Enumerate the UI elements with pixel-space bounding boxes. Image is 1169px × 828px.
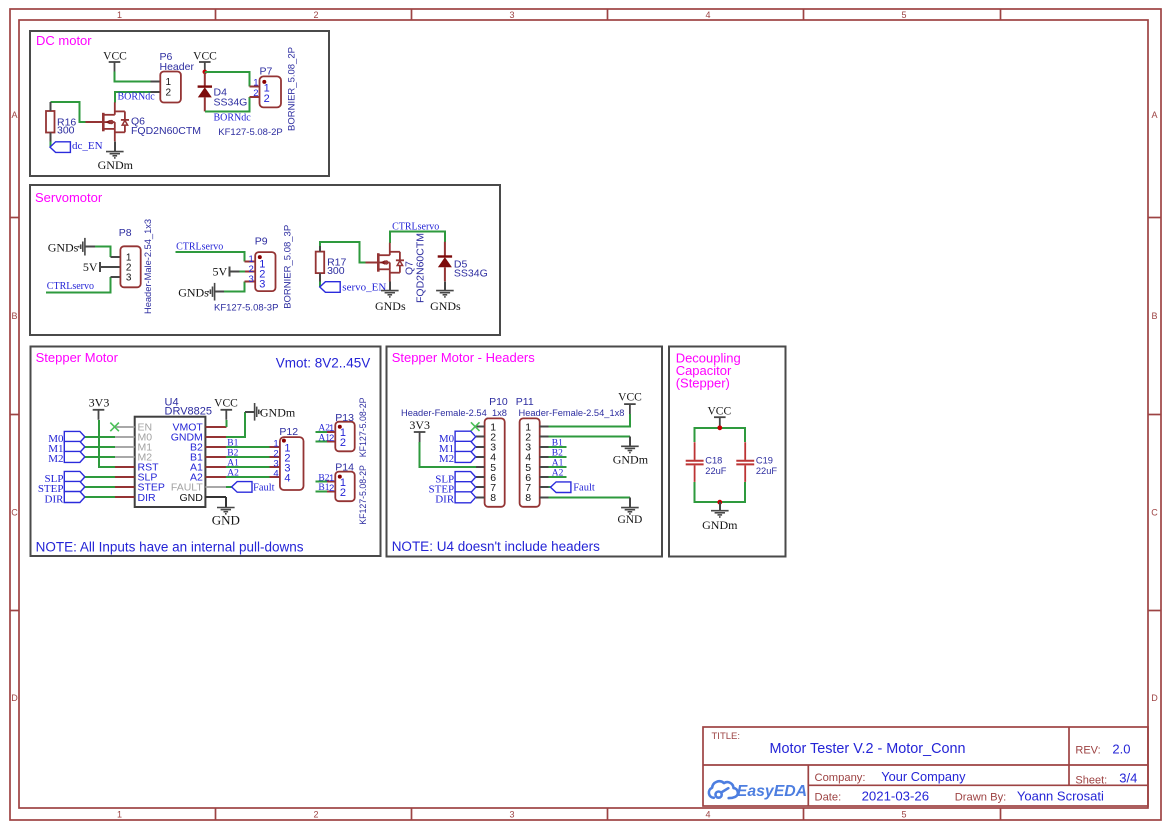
power 3V3 (headers) bbox=[409, 418, 430, 442]
svg-text:(Stepper): (Stepper) bbox=[676, 376, 730, 391]
svg-text:P8: P8 bbox=[119, 227, 132, 239]
power VCC (decoupling) bbox=[707, 406, 731, 428]
wire FAULT to Fault flag bbox=[226, 486, 232, 488]
U4 pin stub EN bbox=[115, 426, 135, 428]
svg-text:2: 2 bbox=[313, 810, 318, 820]
wire net A1 (P11 pin 5) bbox=[549, 466, 567, 468]
svg-text:SS34G: SS34G bbox=[454, 267, 488, 279]
transistor Q7 bbox=[378, 243, 404, 282]
pin 2 stub of P6 bbox=[150, 91, 160, 93]
P7 outside pin numbers bbox=[253, 78, 258, 100]
connector P10 body bbox=[485, 418, 505, 506]
D5 cathode lead to ground bbox=[444, 281, 446, 290]
wire VCC to P11 pin 1 bbox=[549, 414, 630, 427]
U4 pin stub FAULT bbox=[205, 486, 225, 488]
svg-text:A1: A1 bbox=[227, 458, 239, 468]
power 5V (P8 pin2) bbox=[83, 260, 100, 274]
svg-text:servo_EN: servo_EN bbox=[342, 282, 386, 294]
svg-text:3: 3 bbox=[509, 10, 514, 20]
svg-text:P7: P7 bbox=[260, 66, 273, 78]
wire M0 flag to U4 bbox=[85, 436, 115, 438]
svg-text:DIR: DIR bbox=[435, 494, 455, 506]
svg-text:1: 1 bbox=[117, 10, 122, 20]
title block dividers bbox=[703, 727, 1148, 806]
gate lead of Q6 bbox=[85, 121, 103, 123]
wire R17 bottom to servo_EN flag bbox=[319, 282, 321, 287]
svg-text:5V: 5V bbox=[213, 265, 228, 279]
net flag Fault (headers) bbox=[551, 482, 571, 493]
wire 5V to P9 pin 2 bbox=[230, 271, 240, 273]
net flag SLP bbox=[64, 471, 85, 482]
svg-text:GNDs: GNDs bbox=[48, 240, 79, 254]
svg-text:A1: A1 bbox=[552, 459, 564, 469]
ground GNDs (D5) bbox=[436, 291, 454, 297]
U4 right pin names bbox=[171, 422, 204, 504]
wire R16 top to Q6 gate bbox=[50, 102, 85, 122]
wire net BORNdc to P6 pin 2 bbox=[115, 92, 151, 103]
svg-text:Yoann Scrosati: Yoann Scrosati bbox=[1017, 789, 1104, 804]
Stepper Motor section box bbox=[31, 347, 381, 557]
svg-text:VCC: VCC bbox=[103, 50, 127, 62]
svg-text:2: 2 bbox=[264, 93, 270, 105]
svg-text:VCC: VCC bbox=[707, 406, 731, 418]
net flag SLP (headers) bbox=[455, 472, 476, 483]
svg-text:M2: M2 bbox=[48, 453, 63, 465]
wire B2 to P12 pin 1 bbox=[226, 446, 270, 448]
svg-text:22uF: 22uF bbox=[705, 466, 727, 476]
P9 pin 1 marker dot bbox=[258, 255, 262, 259]
svg-text:P11: P11 bbox=[516, 396, 534, 408]
wire VCC junction to P7 pin 1 bbox=[205, 72, 250, 87]
P14 outside pin numbers bbox=[329, 473, 334, 494]
connector P13 body bbox=[335, 422, 354, 452]
P6 pin numbers bbox=[166, 77, 172, 98]
svg-text:P12: P12 bbox=[279, 426, 298, 438]
net flag DIR (headers) bbox=[455, 492, 476, 503]
ground GNDs (P8 pin1) bbox=[79, 238, 85, 256]
svg-text:P14: P14 bbox=[335, 462, 354, 474]
svg-text:Stepper Motor - Headers: Stepper Motor - Headers bbox=[392, 350, 536, 365]
U4 pin stub GND bbox=[205, 496, 225, 498]
wire CTRLservo Q7 drain to D5 bbox=[390, 231, 445, 243]
power VCC (DC motor) bbox=[103, 50, 127, 72]
wire GNDs stem (P9) bbox=[215, 291, 224, 293]
wire R17 top to Q7 gate bbox=[320, 242, 366, 262]
svg-text:GNDm: GNDm bbox=[260, 406, 296, 420]
Servomotor section box bbox=[30, 185, 500, 335]
svg-text:Fault: Fault bbox=[573, 483, 595, 494]
svg-text:D: D bbox=[11, 693, 18, 703]
wire CTRLservo to P9 pin 1 bbox=[176, 252, 245, 262]
svg-text:BORNIER_5.08_3P: BORNIER_5.08_3P bbox=[283, 225, 294, 309]
svg-text:3: 3 bbox=[249, 274, 254, 285]
P12 outside pin numbers bbox=[273, 438, 278, 479]
svg-text:Header: Header bbox=[160, 61, 195, 73]
svg-text:5: 5 bbox=[901, 810, 906, 820]
svg-text:1: 1 bbox=[253, 78, 258, 89]
wire P11 pin 7 to Fault flag bbox=[549, 486, 551, 488]
connector P11 body bbox=[520, 418, 540, 506]
U4 pin stub SLP bbox=[115, 476, 135, 478]
svg-text:TITLE:: TITLE: bbox=[712, 731, 741, 742]
svg-text:BORNdc: BORNdc bbox=[214, 113, 252, 124]
svg-text:EasyEDA: EasyEDA bbox=[737, 783, 807, 800]
svg-text:8: 8 bbox=[490, 492, 496, 504]
pin stub R16 bottom bbox=[49, 133, 51, 142]
P13 inside pin numbers bbox=[340, 427, 346, 449]
connector P9 body bbox=[255, 252, 275, 291]
svg-text:DRV8825: DRV8825 bbox=[165, 406, 213, 418]
svg-text:FQD2N60CTM: FQD2N60CTM bbox=[415, 233, 427, 303]
Stepper Motor - Headers section box bbox=[387, 347, 663, 557]
svg-text:GNDs: GNDs bbox=[375, 299, 406, 313]
ground GNDm stem (headers) bbox=[629, 437, 631, 447]
power VCC (near D4) bbox=[193, 50, 217, 72]
svg-text:dc_EN: dc_EN bbox=[72, 140, 103, 152]
svg-text:2: 2 bbox=[329, 433, 334, 444]
svg-text:C: C bbox=[11, 508, 18, 518]
wire STEP flag to U4 bbox=[85, 486, 115, 488]
junction node bottom GNDm bbox=[717, 500, 722, 505]
net flag M1 bbox=[64, 441, 85, 452]
U4 pin stub A1 bbox=[205, 466, 225, 468]
wire DIR flag to U4 bbox=[85, 496, 115, 498]
junction node VCC/D4 bbox=[203, 70, 208, 75]
DC motor section box bbox=[30, 31, 329, 176]
connector P14 body bbox=[335, 472, 354, 502]
svg-text:GND: GND bbox=[179, 492, 203, 504]
svg-text:Date:: Date: bbox=[815, 792, 842, 804]
power VCC (stepper) bbox=[214, 397, 238, 420]
P11 pin stubs bbox=[540, 427, 549, 498]
svg-text:Sheet:: Sheet: bbox=[1075, 775, 1107, 787]
net flag STEP bbox=[64, 481, 85, 492]
svg-text:2: 2 bbox=[313, 10, 318, 20]
ground GNDm stem (stepper) bbox=[245, 411, 254, 413]
U4 pin stub B2 bbox=[205, 446, 225, 448]
svg-text:M2: M2 bbox=[439, 453, 454, 465]
P14 pin 2 stub bbox=[327, 490, 335, 492]
svg-text:KF127-5.08-2P: KF127-5.08-2P bbox=[218, 127, 282, 138]
svg-text:B2: B2 bbox=[552, 448, 563, 458]
svg-text:GND: GND bbox=[212, 513, 240, 528]
svg-text:300: 300 bbox=[327, 265, 345, 277]
svg-text:3: 3 bbox=[126, 273, 132, 284]
svg-text:KF127-5.08-2P: KF127-5.08-2P bbox=[358, 465, 368, 525]
svg-text:GNDm: GNDm bbox=[613, 453, 649, 467]
wire net B2 (P11 pin 4) bbox=[549, 456, 567, 458]
svg-text:P13: P13 bbox=[335, 412, 354, 424]
P9 pin 3 stub bbox=[245, 281, 256, 283]
P7 pin 1 marker dot bbox=[262, 80, 266, 84]
wire bottom rail C18-C19 bbox=[695, 482, 746, 502]
svg-text:GNDs: GNDs bbox=[430, 299, 461, 313]
transistor Q6 bbox=[103, 102, 129, 141]
svg-text:B1: B1 bbox=[227, 438, 238, 448]
wire net BORNdc to P7 pin 2 bbox=[205, 97, 250, 111]
pin stub R17 top bbox=[319, 246, 321, 252]
net flag M2 bbox=[64, 451, 85, 462]
svg-text:BORNIER_5.08_2P: BORNIER_5.08_2P bbox=[287, 47, 298, 131]
P7 pin 1 stub bbox=[250, 86, 260, 88]
P13 pin 1 stub bbox=[327, 431, 335, 433]
no-connect X on EN bbox=[110, 423, 119, 432]
svg-text:VCC: VCC bbox=[193, 50, 217, 62]
P9 pin 2 stub bbox=[245, 271, 255, 273]
net flag M2 (headers) bbox=[455, 451, 476, 462]
Q7 source lead to ground bbox=[389, 282, 391, 291]
P12 pin 1 stub bbox=[270, 446, 280, 448]
U4 pin stub RST bbox=[115, 466, 135, 468]
wire GNDs to P9 pin 3 bbox=[224, 282, 245, 292]
wire R16 bottom to dc_EN flag bbox=[49, 142, 51, 148]
net flag M1 (headers) bbox=[455, 441, 476, 452]
power 5V (P9 pin2) bbox=[213, 265, 230, 279]
wire M1 flag to U4 bbox=[85, 446, 115, 448]
svg-text:300: 300 bbox=[57, 125, 75, 137]
svg-text:VCC: VCC bbox=[618, 391, 642, 403]
ground GNDs (P9 pin3) bbox=[208, 283, 214, 301]
net flag M0 (headers) bbox=[455, 431, 476, 442]
net flag dc_EN bbox=[50, 142, 70, 153]
svg-text:Company:: Company: bbox=[815, 772, 866, 784]
svg-text:Your Company: Your Company bbox=[881, 769, 966, 784]
connector P7 body bbox=[260, 76, 282, 107]
U4 pin stub M1 bbox=[115, 446, 135, 448]
ground GND (stepper) bbox=[217, 508, 235, 514]
capacitor C19 bbox=[736, 442, 754, 482]
svg-text:Vmot: 8V2..45V: Vmot: 8V2..45V bbox=[276, 355, 371, 370]
svg-text:3: 3 bbox=[509, 810, 514, 820]
svg-text:VCC: VCC bbox=[214, 397, 238, 409]
capacitor C18 bbox=[686, 442, 704, 482]
svg-text:C: C bbox=[1151, 508, 1158, 518]
P7 pin 2 stub bbox=[250, 96, 260, 98]
junction node VCC/C18/C19 bbox=[717, 425, 722, 430]
net flag DIR bbox=[64, 492, 85, 503]
P9 inside pin numbers bbox=[259, 259, 265, 291]
power VCC (headers) bbox=[618, 391, 642, 414]
ground GND (headers) bbox=[621, 508, 639, 514]
svg-text:NOTE: All Inputs have an inter: NOTE: All Inputs have an internal pull-d… bbox=[36, 540, 304, 555]
EasyEDA logo bbox=[709, 781, 738, 798]
wire net A2 (P11 pin 6) bbox=[549, 476, 567, 478]
connector P12 body bbox=[280, 437, 304, 490]
svg-text:Header-Female-2.54_1x8: Header-Female-2.54_1x8 bbox=[401, 408, 507, 418]
wire 3V3 to P10 pin 5 bbox=[420, 442, 476, 467]
P8 pin 3 stub bbox=[110, 276, 120, 278]
svg-text:A: A bbox=[1151, 110, 1157, 120]
wire bottom junction to ground bbox=[719, 502, 721, 511]
svg-text:3V3: 3V3 bbox=[409, 418, 430, 432]
pin stub R16 top bbox=[49, 102, 51, 111]
svg-text:Drawn By:: Drawn By: bbox=[955, 792, 1007, 804]
ground GNDm (decoupling) bbox=[711, 511, 729, 517]
net flag Fault (stepper) bbox=[232, 482, 252, 493]
resistor R17 bbox=[316, 252, 325, 274]
wire SLP flag to U4 bbox=[85, 476, 115, 478]
svg-text:Header-Male-2.54_1x3: Header-Male-2.54_1x3 bbox=[143, 219, 153, 314]
svg-text:Header-Female-2.54_1x8: Header-Female-2.54_1x8 bbox=[519, 408, 625, 418]
no-connect X on P10 pin 1 bbox=[471, 422, 480, 431]
P13 outside pin numbers bbox=[329, 423, 334, 444]
wire VCC to VMOT bbox=[225, 420, 227, 427]
svg-text:2: 2 bbox=[340, 437, 346, 449]
P12 pin 3 stub bbox=[270, 466, 280, 468]
U4 pin stub GNDM bbox=[205, 436, 225, 438]
diode D4 bbox=[198, 72, 212, 112]
wire A2 to P12 pin 4 bbox=[226, 476, 270, 478]
wire 5V to P8 pin 2 bbox=[100, 266, 121, 268]
svg-text:KF127-5.08-2P: KF127-5.08-2P bbox=[358, 397, 368, 457]
pin stub R17 bottom bbox=[319, 273, 321, 281]
svg-text:GND: GND bbox=[617, 514, 642, 526]
resistor R16 bbox=[46, 111, 55, 133]
wire net B1 to P14 pin 2 bbox=[316, 490, 327, 492]
svg-text:2021-03-26: 2021-03-26 bbox=[862, 789, 929, 804]
P12 pin 4 stub bbox=[270, 476, 280, 478]
P12 pin 1 marker dot bbox=[282, 439, 286, 443]
ground GNDm (headers) bbox=[621, 446, 639, 452]
svg-text:2: 2 bbox=[329, 483, 334, 494]
svg-text:P9: P9 bbox=[255, 235, 268, 247]
svg-text:GNDm: GNDm bbox=[98, 158, 134, 172]
svg-text:REV:: REV: bbox=[1075, 745, 1100, 757]
svg-text:5: 5 bbox=[901, 10, 906, 20]
wire 3V3 to RST bbox=[99, 420, 115, 467]
svg-text:Motor Tester V.2 - Motor_Conn: Motor Tester V.2 - Motor_Conn bbox=[770, 741, 966, 757]
svg-text:4: 4 bbox=[284, 472, 290, 484]
svg-text:C19: C19 bbox=[756, 456, 773, 466]
svg-text:CTRLservo: CTRLservo bbox=[176, 241, 223, 252]
P10 pin numbers bbox=[490, 421, 496, 504]
connector P8 body bbox=[120, 246, 140, 287]
connector P6 body bbox=[160, 72, 181, 103]
svg-text:4: 4 bbox=[705, 810, 710, 820]
wire GNDM to GNDm ground bbox=[226, 412, 245, 437]
P14 pin 1 marker dot bbox=[338, 475, 342, 479]
wire P11 pin 2 to GNDm bbox=[549, 436, 630, 438]
svg-text:4: 4 bbox=[705, 10, 710, 20]
diode D5 bbox=[438, 242, 452, 282]
svg-text:GNDs: GNDs bbox=[178, 285, 209, 299]
svg-text:B2: B2 bbox=[227, 448, 238, 458]
svg-text:C18: C18 bbox=[705, 456, 722, 466]
wire GNDs stem bbox=[85, 246, 95, 248]
P9 outside pin numbers bbox=[249, 254, 254, 285]
svg-text:3/4: 3/4 bbox=[1119, 771, 1137, 786]
U4 pin stub M0 bbox=[115, 436, 135, 438]
svg-text:GNDm: GNDm bbox=[702, 518, 738, 532]
svg-text:B: B bbox=[1151, 311, 1157, 321]
svg-text:DC motor: DC motor bbox=[36, 33, 92, 48]
svg-text:A2: A2 bbox=[227, 468, 239, 478]
ground GNDs (Q7) bbox=[381, 291, 399, 297]
wire net A2 to P13 pin 1 bbox=[316, 431, 327, 433]
svg-text:2.0: 2.0 bbox=[1112, 742, 1130, 757]
svg-text:Fault: Fault bbox=[253, 482, 275, 493]
svg-text:CTRLservo: CTRLservo bbox=[47, 281, 94, 292]
Decoupling Capacitor section box bbox=[669, 347, 786, 557]
wire GND to ground bbox=[225, 497, 227, 508]
U4 pin stub DIR bbox=[115, 496, 135, 498]
svg-text:NOTE: U4 doesn't include heade: NOTE: U4 doesn't include headers bbox=[392, 539, 600, 554]
svg-text:22uF: 22uF bbox=[756, 466, 778, 476]
U4 pin stub VMOT bbox=[205, 426, 226, 428]
svg-text:A: A bbox=[11, 110, 17, 120]
wire net B1 (P11 pin 3) bbox=[549, 446, 567, 448]
svg-text:5V: 5V bbox=[83, 260, 98, 274]
svg-text:D: D bbox=[1151, 693, 1158, 703]
P14 inside pin numbers bbox=[340, 477, 346, 499]
Q6 source lead to ground bbox=[114, 141, 116, 151]
svg-text:1: 1 bbox=[117, 810, 122, 820]
svg-text:B1: B1 bbox=[552, 438, 563, 448]
svg-text:BORNdc: BORNdc bbox=[118, 91, 156, 102]
U4 pin stub M2 bbox=[115, 456, 135, 458]
IC U4 body bbox=[135, 417, 206, 507]
P12 pin 2 stub bbox=[270, 456, 280, 458]
P8 pin 1 stub bbox=[110, 256, 120, 258]
P13 pin 1 marker dot bbox=[338, 425, 342, 429]
svg-text:2: 2 bbox=[253, 88, 258, 99]
svg-text:Stepper Motor: Stepper Motor bbox=[36, 350, 119, 365]
P11 pin numbers bbox=[525, 421, 531, 504]
svg-text:DIR: DIR bbox=[45, 493, 65, 505]
P10 pin stubs bbox=[476, 427, 485, 498]
wire P11 pin 8 to GND bbox=[549, 496, 630, 498]
net flag M0 bbox=[64, 431, 85, 442]
U4 pin stub A2 bbox=[205, 476, 225, 478]
svg-text:2: 2 bbox=[340, 487, 346, 499]
svg-text:4: 4 bbox=[273, 468, 278, 479]
svg-text:KF127-5.08-3P: KF127-5.08-3P bbox=[214, 302, 278, 313]
svg-text:SS34G: SS34G bbox=[214, 97, 248, 109]
U4 left pin names bbox=[138, 422, 165, 504]
P13 pin 2 stub bbox=[327, 441, 335, 443]
svg-text:DIR: DIR bbox=[138, 492, 157, 504]
P8 pin numbers bbox=[126, 253, 132, 284]
ground GNDm (stepper) bbox=[255, 403, 261, 421]
wire net A1 to P13 pin 2 bbox=[316, 441, 327, 443]
svg-text:P10: P10 bbox=[489, 396, 508, 408]
wire A1 to P12 pin 3 bbox=[226, 466, 270, 468]
wire VCC to P6 pin 1 bbox=[115, 72, 151, 82]
gate lead of Q7 bbox=[366, 261, 379, 263]
svg-text:8: 8 bbox=[525, 492, 531, 504]
P12 inside pin numbers bbox=[284, 442, 290, 484]
wire M2 flag to U4 bbox=[85, 456, 115, 458]
title block outline bbox=[703, 727, 1148, 806]
P9 pin 1 stub bbox=[245, 261, 256, 263]
wire B1 to P12 pin 2 bbox=[226, 456, 270, 458]
svg-text:3: 3 bbox=[259, 279, 265, 291]
wire net B2 to P14 pin 1 bbox=[316, 481, 327, 483]
power 3V3 (stepper) bbox=[89, 395, 110, 420]
wire CTRLservo to P8 pin 3 bbox=[46, 277, 110, 292]
svg-text:FQD2N60CTM: FQD2N60CTM bbox=[131, 125, 201, 137]
pin 1 stub of P6 bbox=[150, 81, 160, 83]
svg-text:3V3: 3V3 bbox=[89, 395, 110, 409]
U4 pin stub STEP bbox=[115, 486, 135, 488]
U4 pin stub B1 bbox=[205, 456, 225, 458]
ground GNDm (DC motor) bbox=[106, 152, 124, 158]
net flag STEP (headers) bbox=[455, 482, 476, 493]
svg-text:2: 2 bbox=[166, 87, 172, 98]
svg-text:A2: A2 bbox=[552, 469, 564, 479]
P14 pin 1 stub bbox=[327, 481, 335, 483]
wire GNDs to P8 pin 1 bbox=[95, 247, 110, 257]
